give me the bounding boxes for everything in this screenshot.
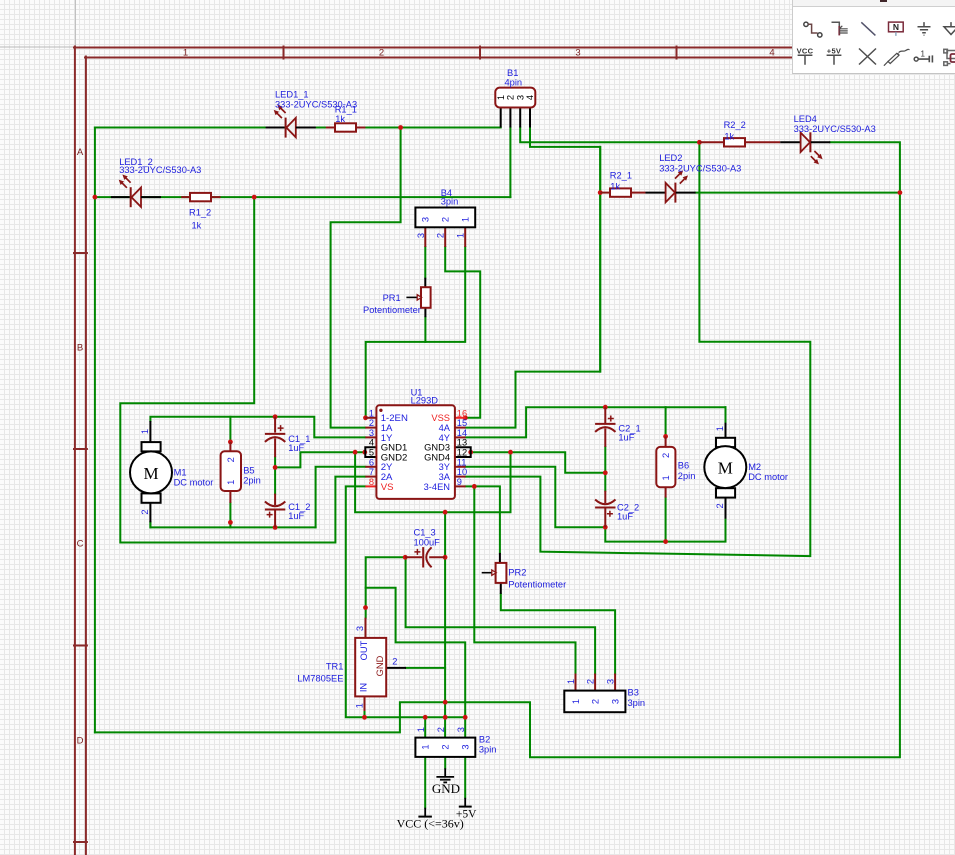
svg-text:1: 1 (571, 699, 581, 704)
capacitor C1_1 (265, 417, 285, 457)
svg-text:3: 3 (461, 744, 471, 749)
junction C2 midpoint (603, 470, 608, 475)
svg-text:6: 6 (369, 457, 374, 467)
svg-text:4: 4 (525, 95, 535, 100)
svg-text:2: 2 (140, 509, 150, 514)
junction TR1 OUT wire (363, 605, 368, 610)
wire U1 3Y to C2_2 bottom node (466, 467, 606, 527)
svg-text:1: 1 (715, 426, 725, 431)
wire GND1-2 node to C1 midpoint (275, 452, 355, 467)
wire PR2 bottom to B3 pin 3 (501, 594, 615, 674)
wire row2 LED2 cathode to right vertical (696, 192, 900, 194)
wire U1 4Y to M2 top rail (466, 407, 726, 437)
power symbol +5V (459, 798, 472, 807)
svg-text:DC motor: DC motor (748, 472, 788, 482)
capacitor C2_1 (595, 407, 615, 447)
wire B4 pin 1 to U1 1-2EN (366, 247, 466, 418)
wire TR1 GND pin to B2 pin 2 vertical (406, 667, 445, 669)
junction B6 pin 2 (663, 434, 668, 439)
junction row1 x699 (697, 140, 702, 145)
svg-text:14: 14 (457, 428, 467, 438)
wire row A from left loop to B1 pin 1 (95, 127, 501, 129)
junction GND3-4 bracket (468, 450, 473, 455)
junction GND net left corner (353, 450, 358, 455)
LED LED1_2 (111, 175, 161, 208)
svg-text:4: 4 (769, 48, 774, 59)
svg-text:3: 3 (611, 699, 621, 704)
svg-text:D: D (77, 736, 84, 747)
wire row2 resistor node (599, 147, 601, 372)
svg-text:DC motor: DC motor (174, 477, 214, 487)
wire B4 pin 3 to PR1 top (424, 247, 426, 278)
wire M1 pin 2 stub (149, 522, 151, 527)
wire B2 pin 3 to +5V symbol (464, 757, 466, 798)
toolbar icon VCC (797, 46, 814, 64)
toolbar icon +5V (827, 46, 842, 64)
junction B2 pin 3 rail (463, 715, 468, 720)
svg-text:B2: B2 (479, 734, 490, 744)
resistor R2_1 (600, 188, 645, 196)
svg-text:11: 11 (457, 457, 467, 467)
svg-text:4Y: 4Y (439, 433, 450, 443)
svg-text:2: 2 (715, 503, 725, 508)
junction B2 pin 1 (423, 715, 428, 720)
LED LED1_1 (266, 105, 316, 138)
wire row1 node down to 3A via M2 right loop diagonal (466, 142, 811, 556)
wire TR1 pin 1 to supply rail (364, 711, 366, 717)
potentiometer PR2 (482, 553, 507, 594)
toolbar icon ground (918, 22, 931, 35)
connector B3 (564, 674, 625, 713)
wire 3-4EN node down to B3 pin 1 (474, 486, 575, 673)
svg-text:1: 1 (456, 233, 466, 238)
wire row LED1_2 (95, 196, 511, 198)
svg-text:3A: 3A (439, 472, 451, 482)
svg-text:4A: 4A (439, 423, 451, 433)
svg-text:3: 3 (416, 233, 426, 238)
svg-text:GND: GND (432, 781, 460, 796)
svg-text:12: 12 (457, 448, 467, 458)
svg-text:LED4: LED4 (794, 114, 817, 124)
svg-text:M1: M1 (174, 467, 187, 477)
capacitor C1_3 (405, 547, 445, 567)
svg-text:B6: B6 (678, 460, 689, 470)
svg-text:TR1: TR1 (326, 662, 344, 672)
svg-text:3: 3 (369, 428, 374, 438)
junction GND1-2 bracket (362, 450, 367, 455)
svg-text:333-2UYC/S530-A3: 333-2UYC/S530-A3 (119, 165, 201, 175)
svg-text:PR1: PR1 (383, 293, 401, 303)
svg-text:B5: B5 (243, 466, 254, 476)
wire B2 pin 1 stub (424, 717, 426, 737)
connector B6 (656, 436, 675, 497)
ruler row tick A-B (74, 252, 87, 254)
junction C1_3 right (443, 555, 448, 560)
toolbar icon pin (914, 49, 932, 62)
junction B5 pin 1 (228, 520, 233, 525)
svg-text:1: 1 (140, 429, 150, 434)
svg-text:4pin: 4pin (505, 77, 523, 87)
svg-text:LED2: LED2 (659, 153, 682, 163)
svg-text:3pin: 3pin (441, 196, 459, 206)
ruler column tick 2-3 (479, 47, 481, 59)
wire M1 bottom rail (150, 522, 315, 527)
svg-text:3: 3 (456, 727, 466, 732)
toolbar icon netlabel (889, 22, 904, 36)
toolbar icon line (861, 22, 875, 35)
svg-text:13: 13 (457, 438, 467, 448)
svg-text:R2_1: R2_1 (610, 171, 632, 181)
svg-text:M2: M2 (748, 462, 761, 472)
capacitor C2_2 (595, 491, 615, 528)
svg-text:B3: B3 (628, 688, 639, 698)
wire B3 pin 2 to C1_3 left node (406, 557, 595, 673)
svg-text:3Y: 3Y (439, 462, 450, 472)
wire PR1 bottom tee into EN net (424, 317, 426, 342)
svg-text:3: 3 (606, 679, 616, 684)
svg-text:2: 2 (440, 217, 450, 222)
wire B4 pin 2 to U1 VSS (445, 247, 480, 418)
junction C1_3 left (403, 555, 408, 560)
svg-text:1: 1 (369, 408, 374, 418)
svg-text:Potentiometer: Potentiometer (508, 579, 566, 589)
toolbar icon wire (804, 22, 822, 37)
junction C1 midpoint (273, 465, 278, 470)
ground symbol GND (436, 768, 454, 782)
svg-text:2pin: 2pin (678, 471, 696, 481)
svg-text:15: 15 (457, 418, 467, 428)
toolbar icon symbol (944, 49, 955, 65)
svg-text:1: 1 (226, 480, 236, 485)
resistor R1_1 (326, 123, 366, 131)
potentiometer PR1 (406, 278, 430, 318)
motor M2 (704, 423, 746, 519)
wire M1 top rail (150, 417, 365, 438)
svg-text:5: 5 (369, 448, 374, 458)
junction B5 pin 2 (228, 440, 233, 445)
LED LED4 (780, 132, 830, 164)
svg-text:3pin: 3pin (479, 744, 497, 754)
svg-text:LED1_1: LED1_1 (275, 90, 309, 100)
svg-text:2: 2 (661, 453, 671, 458)
svg-text:IN: IN (359, 683, 369, 692)
wire B5 pin 1 drop (229, 503, 231, 528)
svg-text:3: 3 (355, 626, 365, 631)
svg-text:333-2UYC/S530-A3: 333-2UYC/S530-A3 (659, 164, 741, 174)
svg-text:2: 2 (591, 699, 601, 704)
wire B1 pin 3 to row1 right (520, 128, 699, 143)
junction row2 x900 (898, 190, 903, 195)
junction C1_1 top (273, 414, 278, 419)
svg-text:2: 2 (392, 657, 397, 667)
wire node row LED1_2 to M1 loop and U1 2A (120, 197, 365, 542)
svg-text:VCC (<=36v): VCC (<=36v) (397, 817, 464, 831)
svg-text:1: 1 (421, 744, 431, 749)
svg-text:1: 1 (183, 48, 188, 59)
junction C2_2 bottom (603, 525, 608, 530)
svg-text:2: 2 (441, 744, 451, 749)
svg-text:PR2: PR2 (508, 567, 526, 577)
svg-text:1: 1 (460, 217, 470, 222)
wire U1 VS down to supply rail (346, 486, 465, 717)
svg-text:VS: VS (381, 482, 394, 493)
junction C2_1 top (603, 405, 608, 410)
wire B6 pin 2 branch (665, 407, 667, 436)
svg-text:OUT: OUT (359, 640, 369, 660)
svg-text:4: 4 (369, 438, 374, 448)
connector B5 (221, 442, 241, 503)
svg-text:VSS: VSS (431, 413, 450, 423)
wire LED4 cathode to right vertical (830, 142, 900, 192)
toolbar icon earth ground (944, 22, 955, 34)
svg-text:9: 9 (457, 477, 462, 487)
svg-text:LM7805EE: LM7805EE (297, 673, 343, 683)
svg-text:3: 3 (515, 95, 525, 100)
junction TR1 pin 1 (362, 715, 367, 720)
svg-text:M: M (143, 464, 158, 483)
svg-text:1: 1 (416, 727, 426, 732)
wire C1_1 bottom stub (274, 457, 276, 467)
wire +5V branch TR1 riser to B2 pin 3 (366, 588, 466, 738)
svg-text:+5V: +5V (456, 809, 477, 821)
svg-text:R1_1: R1_1 (335, 104, 357, 114)
svg-text:7: 7 (369, 467, 374, 477)
wire B5 pin 2 riser (229, 417, 231, 442)
toolbar icon no-connect (859, 49, 876, 65)
wire U1 3-4EN to PR2 top (466, 486, 500, 553)
capacitor C1_2 (265, 494, 285, 528)
svg-text:1uF: 1uF (288, 511, 304, 521)
svg-text:1uF: 1uF (288, 443, 304, 453)
connector B4 (415, 208, 475, 248)
svg-text:1: 1 (566, 679, 576, 684)
resistor R2_2 (699, 138, 780, 146)
resistor R1_2 (181, 193, 220, 201)
wire B2 pin 1 to VCC symbol (424, 757, 426, 808)
svg-text:GND4: GND4 (424, 452, 450, 462)
svg-text:1k: 1k (724, 131, 734, 141)
wire C2_1 bottom to GND3-4 (471, 447, 606, 473)
junction U1 pin 9 (472, 484, 477, 489)
svg-text:3: 3 (421, 217, 431, 222)
svg-text:N: N (893, 22, 899, 32)
svg-text:C1_3: C1_3 (414, 527, 436, 537)
ruler row tick B-C (74, 448, 87, 450)
wire B1 pin 4 to U1 4A (466, 128, 601, 428)
wire right vertical down to bottom GND run to B2 pin 2 node (445, 193, 900, 758)
wire bottom return to B2 pin 2 node (95, 702, 445, 732)
ruler column tick 3-4 (676, 47, 678, 59)
regulator TR1 LM7805EE (355, 618, 407, 711)
wire B1 pin 2 drop to row LED1_2 (509, 128, 511, 198)
power symbol VCC (418, 808, 432, 817)
svg-text:3: 3 (575, 48, 580, 59)
toolbar icon bus (832, 22, 848, 35)
svg-text:333-2UYC/S530-A3: 333-2UYC/S530-A3 (794, 124, 876, 134)
svg-text:2: 2 (506, 95, 516, 100)
svg-text:GND: GND (375, 655, 385, 676)
svg-text:Potentiometer: Potentiometer (363, 305, 421, 315)
svg-text:1uF: 1uF (618, 432, 634, 442)
svg-text:A: A (77, 147, 84, 158)
ruler row tick D-end (74, 841, 87, 843)
svg-text:2pin: 2pin (243, 476, 261, 486)
wire U1 2Y to M1 bottom rail (316, 467, 366, 528)
svg-text:2: 2 (586, 679, 596, 684)
svg-text:L293D: L293D (411, 396, 439, 406)
svg-text:1: 1 (496, 95, 506, 100)
svg-text:3pin: 3pin (628, 698, 646, 708)
wire GND rail node down through C1_3 right to B2 pin 2 (444, 512, 446, 737)
junction row2 x600 (598, 190, 603, 195)
svg-text:1k: 1k (335, 114, 345, 124)
IC U1 L293D (365, 405, 470, 499)
svg-text:VCC: VCC (797, 46, 814, 55)
sheet boundary gray extension lines (0, 0, 75, 47)
junction B6 pin 1 (663, 539, 668, 544)
svg-text:10: 10 (457, 467, 467, 477)
wire B6 pin 1 drop (665, 498, 667, 542)
ruler column tick 1-2 (283, 47, 285, 59)
svg-text:C: C (77, 539, 84, 550)
ruler row tick C-D (74, 645, 87, 647)
svg-text:GND3: GND3 (424, 443, 450, 453)
motor M1 (130, 421, 172, 522)
junction C1_2 bottom (273, 525, 278, 530)
svg-text:100uF: 100uF (414, 537, 441, 547)
junction B2 pin 2 rail (443, 715, 448, 720)
svg-text:1k: 1k (610, 182, 620, 192)
connector B2 (415, 727, 475, 757)
svg-text:3-4EN: 3-4EN (424, 482, 450, 492)
svg-text:1k: 1k (192, 221, 202, 231)
wire B2 pin 2 to GND symbol (444, 757, 446, 768)
junction B2 pin 2 node (443, 700, 448, 705)
junction U1 pin 16 VSS (463, 415, 468, 420)
svg-text:2: 2 (436, 727, 446, 732)
junction GND net right (508, 450, 513, 455)
svg-text:1: 1 (661, 475, 671, 480)
junction GND rail x445 (443, 510, 448, 515)
LED LED2 (646, 170, 696, 202)
junction row LED1_2 x254 (252, 195, 257, 200)
svg-text:2: 2 (379, 48, 384, 59)
wire C2_2 bottom to M2 bottom rail (605, 519, 725, 542)
wire node rowA to U1 1A (331, 128, 401, 428)
svg-text:R1_2: R1_2 (189, 208, 211, 218)
toolbar icon draw-wire pen (884, 49, 910, 65)
wire C2 midpoint down to C2_2 (604, 473, 606, 491)
svg-text:+5V: +5V (827, 46, 841, 55)
svg-text:1uF: 1uF (617, 512, 633, 522)
wire left return vertical x95 (94, 128, 96, 733)
junction U1 pin 1 (363, 415, 368, 420)
wire GND3-4 node down rail across to GND1-2 node (355, 452, 510, 512)
svg-text:B: B (77, 343, 83, 354)
wire C1 midpoint down to C1_2 (274, 467, 276, 493)
junction row LED1_2 left (93, 195, 98, 200)
connector B1 (495, 88, 535, 128)
svg-text:16: 16 (457, 408, 467, 418)
junction row A x400 (398, 125, 403, 130)
svg-text:2: 2 (226, 457, 236, 462)
svg-text:8: 8 (369, 477, 374, 487)
svg-text:2: 2 (369, 418, 374, 428)
wire M2 pin 1 stub (725, 407, 727, 423)
wire TR1 OUT riser to C1_3 left node (366, 557, 406, 617)
svg-text:M: M (718, 459, 733, 478)
svg-text:1: 1 (921, 49, 926, 58)
svg-text:2: 2 (436, 233, 446, 238)
svg-text:R2_2: R2_2 (724, 120, 746, 130)
svg-text:1: 1 (355, 703, 365, 708)
